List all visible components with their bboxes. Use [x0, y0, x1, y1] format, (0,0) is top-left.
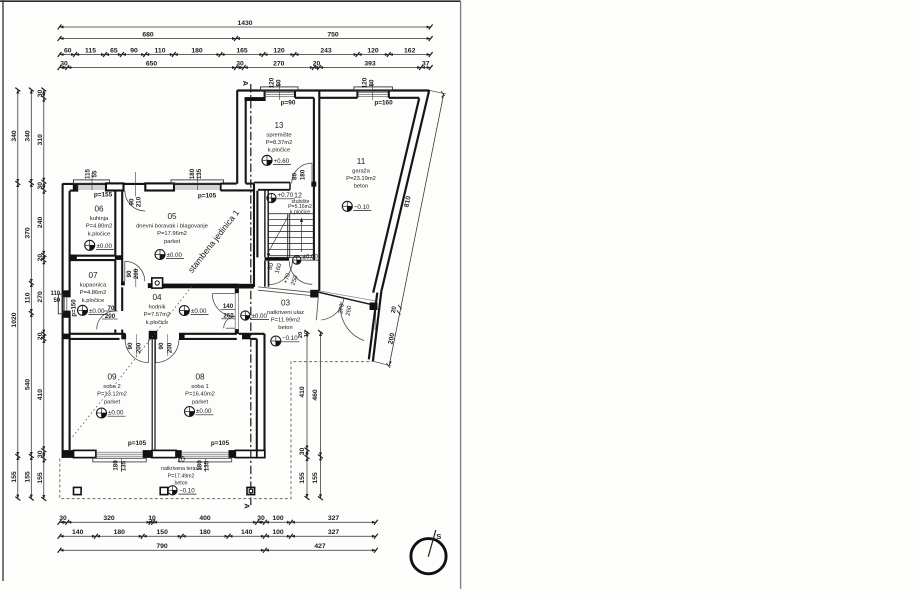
svg-text:30: 30: [37, 182, 44, 190]
bottom wall right segment: [229, 450, 236, 458]
svg-text:p=90: p=90: [281, 100, 296, 107]
witness tick kitchen window 1: [91, 173, 93, 190]
svg-text:p=105: p=105: [198, 193, 217, 200]
svg-text:120: 120: [361, 77, 368, 88]
witness ticks terrace windows: [121, 458, 123, 472]
svg-text:P=17.49m2: P=17.49m2: [168, 473, 195, 479]
dimension row 60-115-65-90-110-180-165-120-243-120-162: [60, 54, 431, 56]
left dimension column 30-310-30-240-20-270-20-410-30-155: [43, 90, 45, 500]
partition wall rooms 09/08 (10cm): [151, 339, 153, 450]
svg-text:155: 155: [37, 472, 44, 484]
svg-text:135: 135: [196, 168, 203, 179]
svg-text:hodnik: hodnik: [148, 305, 165, 311]
dotted leader line unit 1: [113, 284, 194, 388]
svg-text:270: 270: [37, 291, 44, 303]
wall outlined segment right of window to T junction: [220, 183, 222, 190]
stair up direction line with arrow: [301, 219, 303, 252]
svg-text:p=160: p=160: [374, 100, 393, 107]
terrace column 2: [160, 487, 168, 494]
slanted dimension 810-20-200 along garage east wall: [389, 94, 444, 366]
svg-text:±0.00: ±0.00: [167, 252, 183, 259]
svg-text:P=8.37m2: P=8.37m2: [266, 140, 293, 146]
wall between 05 and stairwell (x251.5-257.4): [253, 184, 255, 287]
canopy east wall below garage: [373, 292, 381, 362]
garage door leaf 2: [340, 302, 342, 314]
level marker storeroom +0.60: [262, 155, 272, 165]
pier block 110: [145, 183, 174, 190]
wall between 06 and 07 (y255.5-260.3): [70, 255, 115, 257]
pier between terrace windows: [143, 450, 153, 458]
exterior wall left (x62-70): [62, 184, 64, 459]
svg-text:p=150: p=150: [72, 299, 78, 317]
svg-text:natkriveni ulaz: natkriveni ulaz: [267, 310, 304, 316]
bathroom window sill: [58, 294, 62, 314]
svg-text:320: 320: [103, 515, 115, 522]
svg-text:−0.10: −0.10: [282, 335, 298, 342]
chimney box with circle: [152, 278, 163, 288]
stair down direction line with arrow: [267, 216, 289, 255]
svg-text:30: 30: [37, 450, 44, 458]
svg-text:−0.10: −0.10: [179, 488, 195, 495]
svg-text:370: 370: [24, 227, 31, 239]
svg-text:±0.00: ±0.00: [252, 313, 268, 320]
level marker 03 -0.10: [271, 336, 281, 346]
dimension row 30-650-30-270-20-393-37: [60, 67, 431, 69]
front door leaf 2 with arc: [226, 327, 235, 329]
level marker room 08 +-0.00: [185, 407, 195, 417]
svg-text:parket: parket: [104, 399, 121, 405]
svg-text:30: 30: [59, 515, 67, 522]
svg-text:P=23.19m2: P=23.19m2: [346, 176, 376, 182]
level marker stair +0.70: [267, 193, 276, 202]
terrace window 1 sill and glass: [93, 458, 147, 462]
door arc stair to lobby: [269, 261, 293, 285]
svg-text:P=13.12m2: P=13.12m2: [97, 392, 127, 398]
level marker entry door +-0.00: [241, 311, 250, 320]
svg-text:garaža: garaža: [352, 169, 371, 175]
svg-text:k.pločice: k.pločice: [82, 298, 105, 304]
svg-text:180: 180: [299, 169, 306, 180]
door 70/200 bathroom: [114, 330, 116, 334]
svg-text:80: 80: [276, 79, 283, 86]
balcony door 90/210 opening with swing arc: [125, 191, 145, 211]
right dimension column 410-30-155: [306, 332, 308, 498]
svg-text:06: 06: [94, 205, 104, 214]
svg-text:08: 08: [195, 373, 205, 382]
svg-text:beton: beton: [354, 183, 369, 189]
svg-text:11: 11: [357, 157, 366, 166]
svg-text:±0.00: ±0.00: [108, 410, 124, 417]
top wall of rooms 13/11 (y90-98.5): [237, 89, 429, 91]
svg-text:P=11.99m2: P=11.99m2: [271, 318, 300, 324]
svg-text:180: 180: [196, 460, 203, 471]
svg-text:90: 90: [126, 270, 133, 277]
svg-text:135: 135: [204, 460, 211, 471]
svg-text:09: 09: [107, 373, 117, 382]
svg-text:30: 30: [257, 515, 265, 522]
svg-text:1020: 1020: [11, 312, 18, 327]
svg-text:140: 140: [223, 303, 234, 310]
terrace column 3: [247, 487, 255, 494]
svg-text:A: A: [241, 81, 250, 87]
witness tick kitchen window 2: [196, 173, 198, 190]
svg-text:155: 155: [299, 472, 306, 484]
svg-text:155: 155: [11, 471, 18, 483]
room 08 east wall: [256, 339, 258, 450]
svg-text:162: 162: [404, 47, 416, 54]
svg-text:10: 10: [148, 515, 156, 522]
svg-text:180: 180: [112, 460, 119, 471]
stairwell bottom wall: [265, 257, 290, 260]
svg-text:90: 90: [129, 198, 136, 205]
svg-text:p=155: p=155: [94, 192, 113, 199]
jamb block garage door SE: [370, 303, 378, 311]
svg-text:P=4.80m2: P=4.80m2: [86, 224, 113, 230]
svg-text:k.pločice: k.pločice: [88, 231, 111, 237]
dimension row 1430: [60, 26, 431, 28]
svg-text:110: 110: [24, 292, 31, 303]
svg-text:p=105: p=105: [211, 440, 230, 447]
garage south wall with double door 270/260: [319, 292, 377, 306]
door 90/200 hodnik to 05 with arc: [124, 261, 126, 281]
svg-text:p=105: p=105: [128, 440, 147, 447]
svg-text:327: 327: [328, 529, 340, 536]
svg-text:±0.00: ±0.00: [196, 408, 212, 415]
svg-text:30: 30: [37, 90, 44, 98]
svg-text:80: 80: [368, 79, 375, 86]
svg-text:90: 90: [127, 342, 134, 349]
stair left stringer wall: [264, 190, 266, 258]
kitchen window 180/135: [171, 180, 224, 184]
svg-text:120: 120: [269, 77, 276, 88]
svg-text:±0.00: ±0.00: [89, 308, 105, 315]
svg-text:243: 243: [320, 47, 332, 54]
wall hodnik south / rooms 09-08 north (y333.5-339): [70, 333, 126, 335]
jamb right of garage window / NE corner: [389, 97, 419, 99]
svg-text:180: 180: [114, 529, 126, 536]
door arc 13 to stair landing: [311, 163, 313, 183]
front door leaf 1 with arc: [212, 293, 235, 295]
room 13 south wall with door 80/180: [254, 182, 290, 184]
svg-text:400: 400: [199, 515, 211, 522]
garage window 120/80 (p=160): [354, 87, 393, 90]
svg-text:90: 90: [158, 342, 165, 349]
svg-text:180: 180: [189, 168, 196, 179]
hodnik east wall with front door 140/260: [235, 288, 239, 293]
witness tick garage window: [371, 82, 373, 100]
svg-text:P=7.57m2: P=7.57m2: [144, 312, 171, 318]
wall between 13 and 11 / stair and garage (x312-318.5): [313, 98, 315, 260]
svg-text:410: 410: [299, 386, 306, 398]
level marker terrace -0.10: [168, 486, 177, 495]
svg-text:beton: beton: [278, 325, 293, 331]
stair treads room 12: [268, 213, 313, 215]
svg-text:115: 115: [85, 47, 96, 54]
svg-text:180: 180: [191, 47, 203, 54]
wall between kitchen 06 and living 05, continues as bathroom east wall: [114, 191, 116, 256]
svg-text:115: 115: [85, 168, 92, 179]
svg-text:soba 1: soba 1: [191, 384, 208, 390]
pier between doors: [149, 331, 158, 340]
wall 05 south black band: [163, 284, 239, 289]
svg-text:327: 327: [328, 515, 340, 522]
page border right: [460, 1, 462, 589]
corner block SE of front door: [242, 334, 251, 340]
svg-text:310: 310: [37, 134, 44, 146]
hodnik north wall (y282-287.5) with door to 05 and chimney: [121, 281, 125, 285]
svg-text:20: 20: [313, 60, 321, 67]
svg-text:P=17.96m2: P=17.96m2: [157, 231, 187, 237]
lobby door arc to 03 inner: [289, 261, 312, 284]
witness tick storeroom window: [278, 82, 280, 100]
terrace window 2 sill and glass: [179, 458, 232, 462]
svg-text:P=4.86m2: P=4.86m2: [80, 290, 107, 296]
door 90/200 to room 09: [148, 339, 150, 362]
terrace dashed outline: [60, 362, 373, 499]
svg-text:A: A: [243, 503, 252, 509]
svg-text:+0.60: +0.60: [274, 158, 290, 165]
svg-text:30: 30: [236, 60, 244, 67]
svg-text:±0.00: ±0.00: [191, 308, 207, 315]
svg-text:790: 790: [156, 543, 168, 550]
top wall of rooms 06/05 (y183.5-190.5): [63, 183, 221, 185]
svg-text:135: 135: [121, 460, 128, 471]
north needle: [428, 530, 436, 557]
north symbol circle: [411, 539, 446, 574]
right dimension column 460-155: [320, 332, 322, 498]
svg-text:1430: 1430: [237, 20, 252, 27]
bottom wall rooms 09/08 (y450-458) with windows 180/135: [62, 450, 74, 458]
svg-text:100: 100: [272, 515, 284, 522]
svg-text:spremište: spremište: [266, 133, 291, 139]
svg-text:10: 10: [177, 457, 185, 464]
svg-text:±0.00: ±0.00: [303, 254, 319, 261]
svg-text:30: 30: [299, 448, 306, 456]
pier block 65: [106, 183, 124, 190]
dimension row 680/750: [60, 38, 431, 40]
svg-text:340: 340: [11, 130, 18, 142]
svg-text:165: 165: [236, 47, 248, 54]
svg-text:k.pločice: k.pločice: [268, 147, 291, 153]
svg-text:+0.70: +0.70: [278, 192, 294, 199]
svg-text:37: 37: [422, 60, 430, 67]
svg-text:180: 180: [199, 529, 211, 536]
left dimension column 340-370-110-540-155: [30, 90, 32, 499]
svg-text:55: 55: [92, 170, 99, 177]
level marker kitchen +-0.00: [85, 240, 95, 250]
svg-text:210: 210: [136, 196, 143, 207]
svg-text:410: 410: [37, 389, 44, 401]
svg-text:110: 110: [50, 291, 60, 297]
svg-text:120: 120: [273, 47, 285, 54]
svg-text:13: 13: [275, 121, 284, 130]
stair central divider: [287, 214, 289, 258]
level marker stair bottom +-0.00: [293, 256, 301, 264]
svg-text:20: 20: [37, 332, 44, 340]
door 90/200 to room 08: [155, 339, 157, 362]
svg-text:110: 110: [155, 47, 166, 54]
svg-text:100: 100: [272, 529, 284, 536]
svg-text:kupaonica: kupaonica: [80, 283, 107, 289]
svg-text:60: 60: [64, 47, 72, 54]
section line A-A dash-dot: [250, 84, 252, 505]
svg-text:beton: beton: [175, 481, 188, 487]
bathroom window jambs on left wall: [62, 290, 70, 297]
garage east wall slanted: [381, 90, 429, 291]
svg-text:kuhinja: kuhinja: [90, 216, 109, 222]
level marker room 09 +-0.00: [97, 408, 107, 418]
kitchen window 115/55: [74, 180, 110, 184]
svg-text:200: 200: [133, 268, 140, 279]
witness line canopy SE corner: [373, 361, 391, 366]
svg-text:460: 460: [312, 389, 319, 401]
svg-text:240: 240: [37, 217, 44, 229]
svg-text:270: 270: [273, 60, 285, 67]
svg-text:dnevni boravak i blagovanje: dnevni boravak i blagovanje: [136, 224, 208, 230]
left dimension column 340-1020-155: [17, 90, 19, 499]
jamb block lobby/garage: [310, 290, 318, 298]
junction block 06/07 walls: [115, 255, 123, 260]
page border top: [0, 0, 461, 2]
lobby south wall with opening +70/250: [239, 284, 254, 289]
level marker hodnik +-0.00: [179, 306, 189, 316]
svg-text:parket: parket: [164, 239, 181, 245]
svg-text:140: 140: [72, 529, 84, 536]
svg-text:20: 20: [37, 254, 44, 262]
svg-text:parket: parket: [192, 399, 209, 405]
level marker bathroom +-0.00: [78, 305, 88, 315]
svg-text:30: 30: [60, 60, 68, 67]
svg-text:260: 260: [223, 312, 234, 319]
bottom dimension row 790-427: [60, 549, 376, 551]
svg-text:natkrivena terasa: natkrivena terasa: [161, 466, 201, 472]
svg-text:150: 150: [157, 529, 169, 536]
svg-text:50: 50: [53, 298, 60, 304]
page border left: [2, 0, 4, 581]
svg-text:−0.10: −0.10: [354, 204, 370, 211]
lobby west wall: [264, 261, 266, 287]
svg-text:120: 120: [367, 47, 379, 54]
svg-text:04: 04: [152, 293, 162, 302]
terrace column 1: [74, 487, 82, 494]
corner top-left outlined with jamb: [70, 190, 79, 192]
svg-text:S: S: [436, 532, 441, 541]
svg-text:540: 540: [24, 379, 31, 391]
svg-text:07: 07: [88, 271, 98, 280]
storeroom window 120/80 (p=90): [261, 87, 299, 90]
garage door leaf 1: [316, 294, 318, 320]
witness line garage NE corner: [429, 90, 446, 94]
svg-text:soba 2: soba 2: [103, 384, 120, 390]
svg-text:03: 03: [281, 299, 291, 308]
bottom dimension row 140-180-150-180-140-100-327: [60, 535, 376, 537]
svg-text:155: 155: [24, 471, 31, 483]
level marker garage -0.10: [342, 201, 352, 211]
svg-text:650: 650: [146, 60, 158, 67]
wall segment 13/11 top between windows: [295, 97, 314, 99]
bottom dimension row 30-320-10-400-30-100-327: [60, 521, 376, 523]
svg-text:±0.00: ±0.00: [97, 243, 113, 250]
wall between room 13 and exterior (x237.5-246): [236, 90, 238, 184]
level marker living +-0.00: [155, 250, 165, 260]
svg-text:155: 155: [312, 472, 319, 484]
jamb at left end of 06/07 wall: [70, 255, 77, 261]
svg-text:05: 05: [167, 212, 177, 221]
svg-text:P=16.40m2: P=16.40m2: [185, 392, 215, 398]
svg-text:k.pločice: k.pločice: [290, 210, 310, 216]
svg-text:65: 65: [110, 47, 118, 54]
svg-text:340: 340: [24, 130, 31, 142]
jamb at left end of rooms north wall: [62, 334, 70, 340]
svg-text:80: 80: [291, 173, 298, 180]
svg-text:750: 750: [327, 32, 339, 39]
svg-text:90: 90: [130, 47, 138, 54]
svg-text:427: 427: [314, 543, 326, 550]
svg-text:680: 680: [142, 32, 154, 39]
svg-text:140: 140: [241, 529, 253, 536]
svg-text:393: 393: [364, 60, 376, 67]
